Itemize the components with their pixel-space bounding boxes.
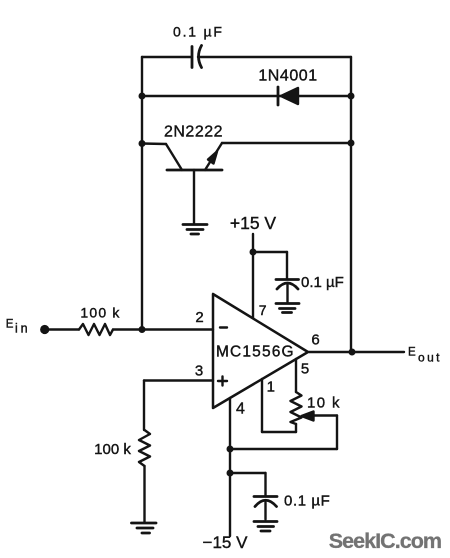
- svg-text:0.1 µF: 0.1 µF: [301, 274, 344, 291]
- svg-text:6: 6: [311, 332, 319, 349]
- svg-text:SeekIC.com: SeekIC.com: [329, 529, 441, 553]
- svg-text:100 k: 100 k: [80, 305, 120, 321]
- svg-text:3: 3: [195, 363, 203, 380]
- svg-text:out: out: [418, 351, 442, 365]
- svg-text:MC1556G: MC1556G: [216, 344, 295, 361]
- svg-text:4: 4: [236, 401, 245, 418]
- svg-text:7: 7: [259, 302, 267, 318]
- svg-text:E: E: [408, 347, 416, 359]
- svg-text:1: 1: [267, 379, 275, 396]
- svg-text:1N4001: 1N4001: [258, 68, 317, 85]
- svg-text:0.1 µF: 0.1 µF: [173, 24, 224, 40]
- svg-text:−15 V: −15 V: [203, 533, 249, 552]
- svg-text:+15 V: +15 V: [230, 213, 277, 233]
- svg-text:10 k: 10 k: [307, 395, 341, 412]
- svg-text:2: 2: [195, 309, 203, 326]
- svg-text:0.1 µF: 0.1 µF: [284, 493, 330, 510]
- svg-text:5: 5: [301, 361, 309, 378]
- svg-text:in: in: [15, 322, 30, 336]
- svg-text:E: E: [6, 319, 14, 331]
- svg-text:100 k: 100 k: [94, 441, 131, 458]
- svg-text:2N2222: 2N2222: [164, 124, 223, 141]
